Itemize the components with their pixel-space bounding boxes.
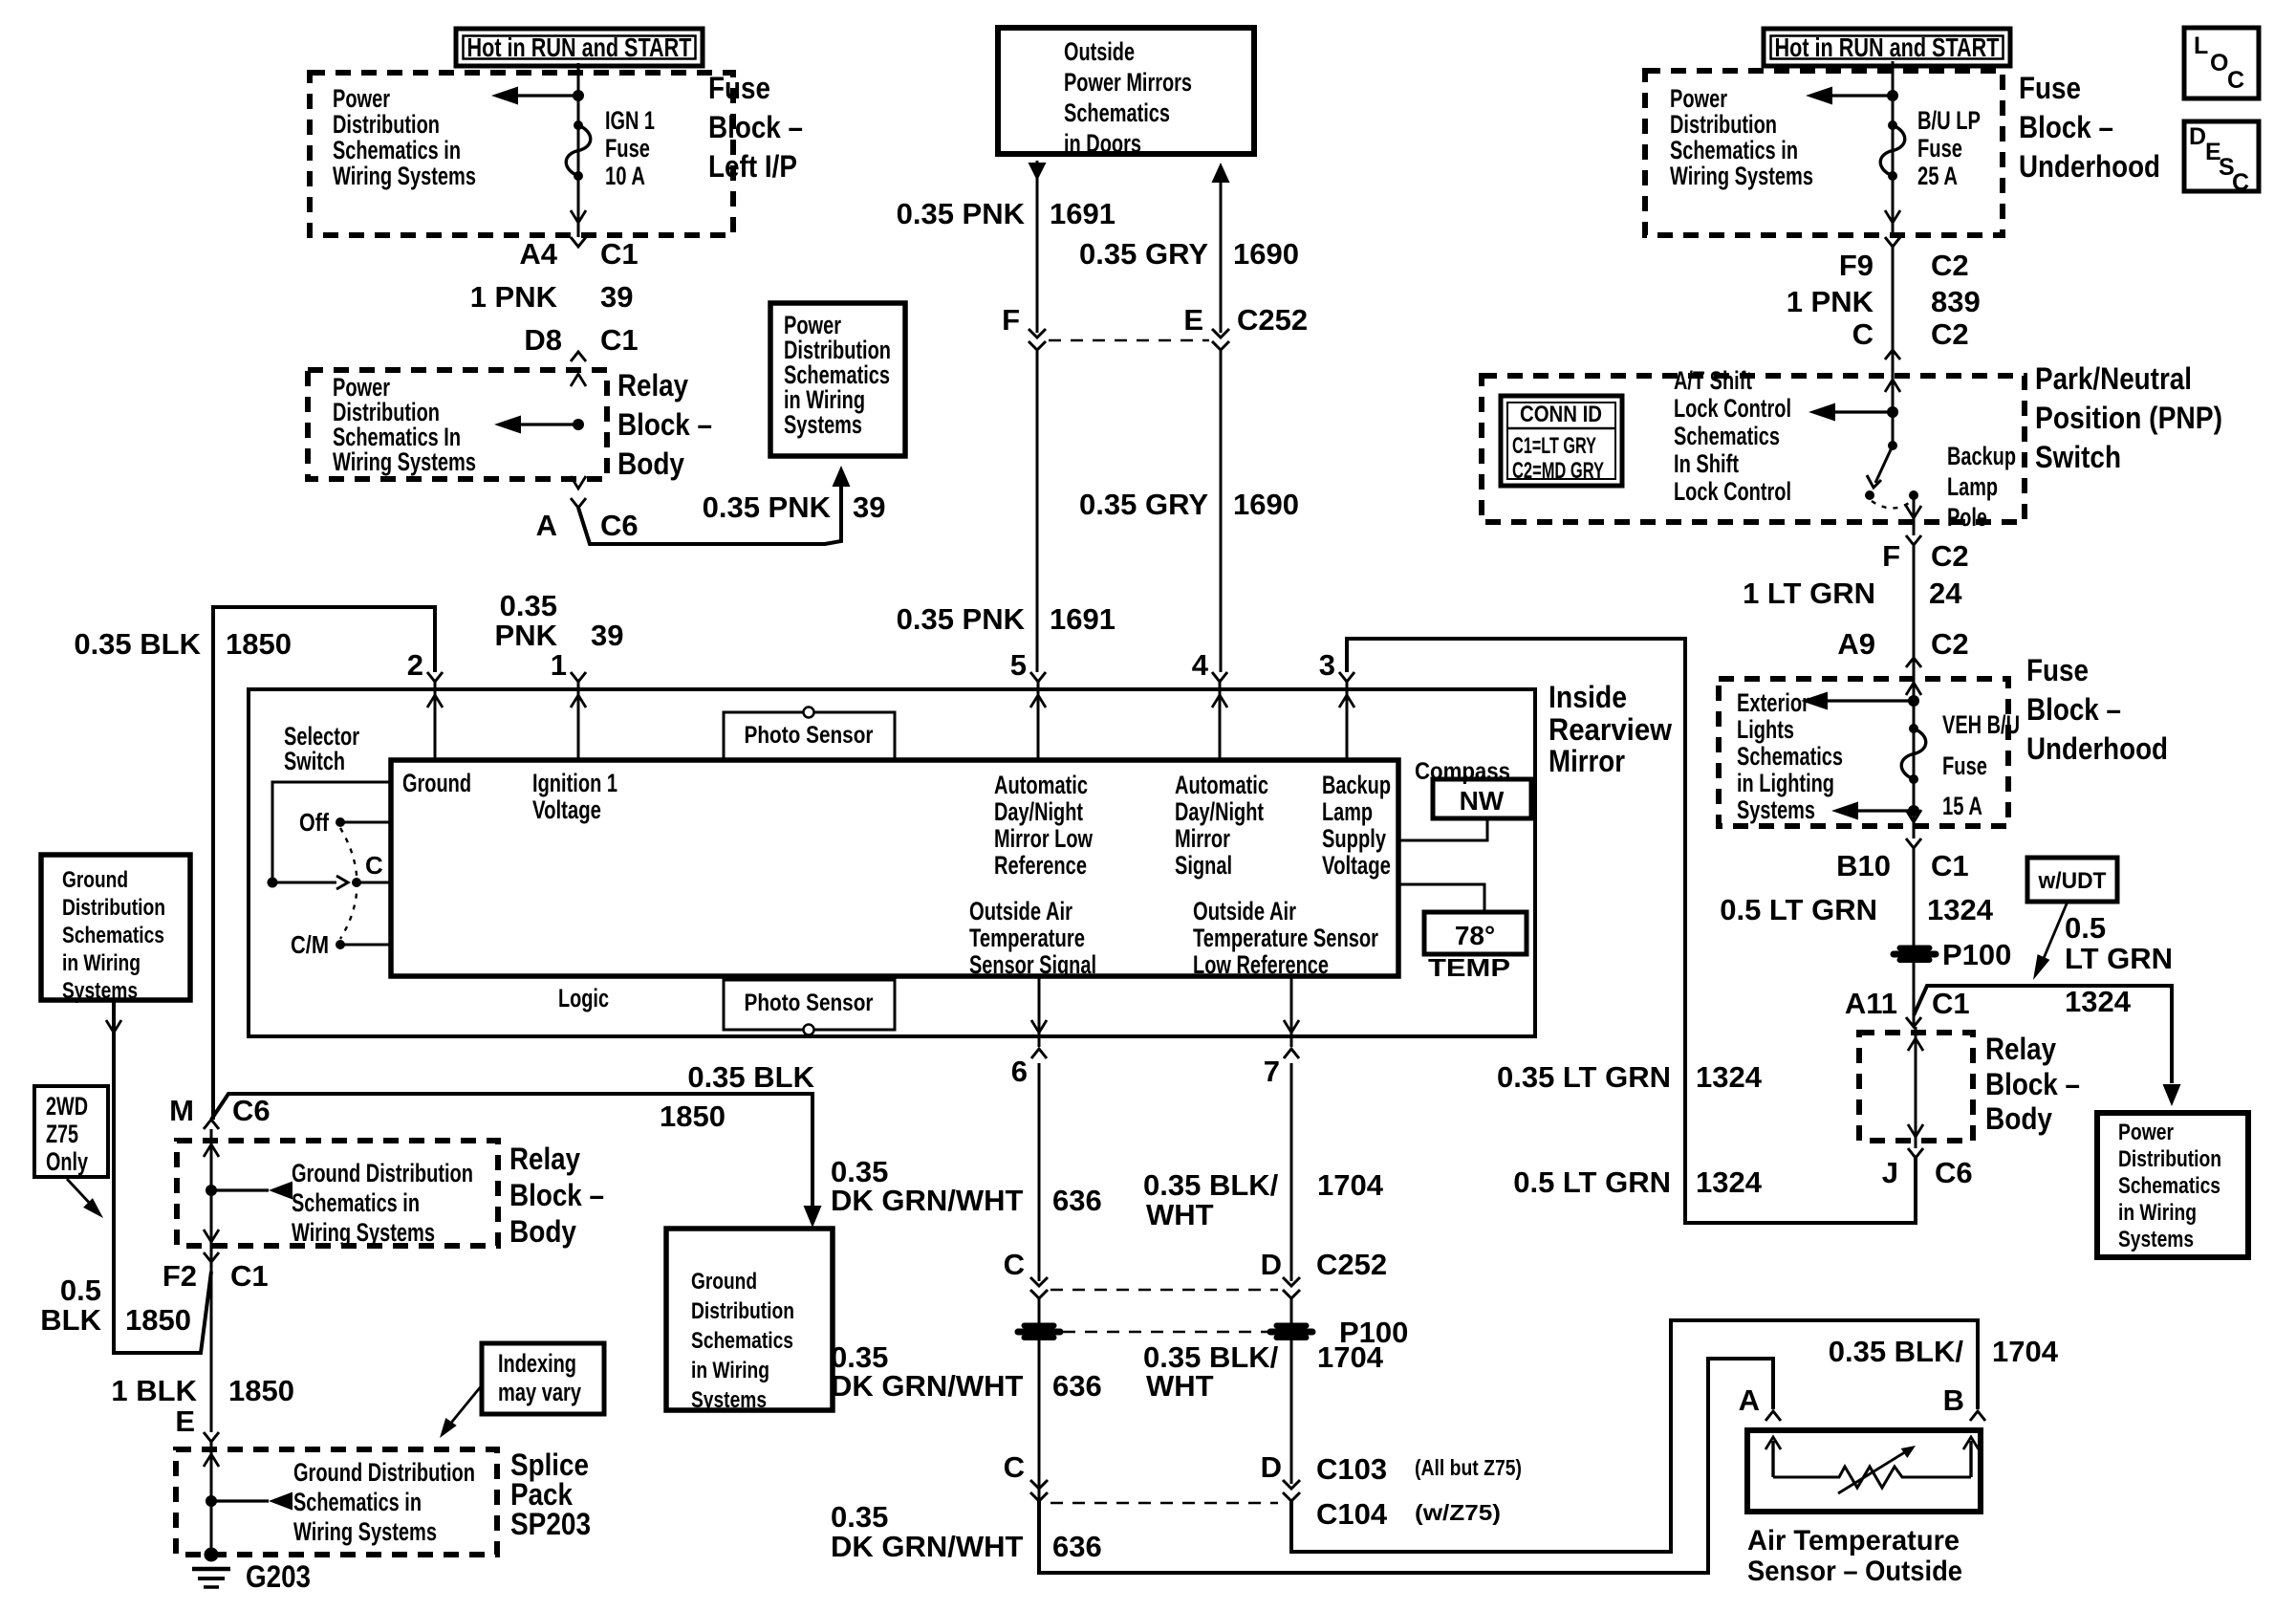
svg-text:Block –: Block –	[2019, 110, 2113, 144]
arrow at mirror pin 6	[1031, 1020, 1047, 1033]
wire 1850: mirror ground to splice pack and ground distribution	[211, 1094, 812, 1207]
svg-text:Signal: Signal	[1175, 851, 1232, 880]
svg-text:E: E	[175, 1404, 195, 1438]
svg-text:C: C	[2227, 67, 2244, 94]
svg-text:Sensor Signal: Sensor Signal	[969, 950, 1096, 979]
svg-text:C103: C103	[1316, 1452, 1387, 1486]
grommet P100 (wire 1324)	[1891, 946, 1939, 963]
svg-text:Park/Neutral: Park/Neutral	[2035, 361, 2192, 396]
svg-text:C/M: C/M	[291, 930, 329, 959]
connector C1 pin A4	[571, 237, 586, 247]
svg-text:C104: C104	[1316, 1497, 1388, 1531]
svg-text:Left I/P: Left I/P	[708, 149, 797, 184]
connector C1 pin F2	[204, 1252, 219, 1262]
grommet P100 (wire 636)	[1015, 1323, 1063, 1340]
fuse VEH B/U Fuse 15 A	[1909, 724, 1918, 733]
fuse block - underhood (VEH B/U) dashed box	[1719, 679, 2008, 826]
wire 0.35 PNK 1691 (pin5 to doors)	[1036, 161, 1039, 333]
arrow exiting relay block	[1908, 1124, 1923, 1137]
ref arrow: ground distribution (splice pack)	[206, 1495, 217, 1507]
node: Air Temperature Sensor - Outside box	[1747, 1430, 1981, 1512]
connector pin E (splice pack)	[204, 1432, 219, 1442]
svg-text:Z75: Z75	[46, 1120, 78, 1148]
wire into mirror pin 2	[434, 682, 437, 760]
svg-text:0.35 BLK: 0.35 BLK	[74, 627, 201, 661]
arrow entering relay block	[1908, 1038, 1923, 1051]
svg-text:Lamp: Lamp	[1322, 797, 1373, 826]
relay block - body dashed box (right)	[1859, 1033, 1973, 1141]
connector C1 pin A11	[1906, 1017, 1921, 1027]
svg-text:Power: Power	[2118, 1120, 2174, 1145]
svg-text:Day/Night: Day/Night	[1175, 797, 1264, 826]
svg-text:Lock Control: Lock Control	[1674, 477, 1791, 506]
svg-text:A/T Shift: A/T Shift	[1674, 366, 1752, 395]
wire to G203	[210, 1442, 213, 1555]
wire out of mirror pin 7	[1290, 976, 1293, 1047]
svg-text:4: 4	[1192, 648, 1209, 682]
node: Outside Power Mirrors Schematics in Doors box	[998, 28, 1254, 154]
wire: 0.35 BLK 1850 from mirror pin 2	[213, 607, 435, 1120]
svg-text:C: C	[365, 851, 383, 880]
svg-text:Underhood: Underhood	[2019, 149, 2160, 184]
node: Indexing may vary tag box	[482, 1343, 604, 1414]
svg-text:Lights: Lights	[1737, 715, 1794, 744]
svg-text:Off: Off	[299, 808, 329, 837]
svg-text:25 A: 25 A	[1917, 162, 1958, 190]
wire to compass display	[1398, 820, 1487, 840]
svg-text:Outside Air: Outside Air	[969, 897, 1072, 925]
svg-text:Only: Only	[46, 1147, 88, 1176]
connector: mirror pin 2	[427, 672, 443, 682]
svg-text:10 A: 10 A	[605, 162, 645, 190]
connector C1 pin B10	[1906, 838, 1921, 848]
arrow at mirror pin 4	[1212, 695, 1227, 708]
arrow entering relay block	[204, 1144, 219, 1157]
svg-text:0.35 GRY: 0.35 GRY	[1079, 237, 1208, 271]
svg-text:Fuse: Fuse	[708, 71, 770, 105]
svg-text:0.35 BLK/: 0.35 BLK/	[1143, 1168, 1279, 1202]
thermistor arrow head	[1901, 1446, 1916, 1458]
svg-text:Temperature Sensor: Temperature Sensor	[1193, 924, 1378, 952]
svg-text:39: 39	[853, 490, 885, 524]
svg-text:(w/Z75): (w/Z75)	[1415, 1500, 1501, 1525]
svg-text:2: 2	[407, 648, 423, 682]
arrow entering fuse block	[1906, 683, 1921, 695]
node: power distribution schematics box (right)	[2097, 1113, 2248, 1257]
node: Hot in RUN and START (right) label box	[1764, 29, 2010, 66]
svg-text:TEMP: TEMP	[1428, 953, 1510, 982]
svg-text:Backup: Backup	[1322, 771, 1391, 799]
svg-text:Block –: Block –	[2026, 692, 2121, 727]
svg-text:Body: Body	[1985, 1101, 2052, 1136]
svg-text:Systems: Systems	[2118, 1227, 2194, 1252]
wire 0.5 LT GRN 1324	[1913, 848, 1916, 1027]
svg-text:Ignition 1: Ignition 1	[532, 769, 617, 797]
svg-text:Mirror: Mirror	[1549, 744, 1625, 778]
connector C6 pin J	[1908, 1148, 1923, 1158]
connector C2 pin F	[1906, 535, 1921, 545]
svg-text:C: C	[1004, 1450, 1025, 1484]
node: LOC box	[2184, 28, 2259, 98]
connector: air temp sensor pin B	[1970, 1411, 1985, 1421]
ref arrow: power distribution takeoff	[1887, 90, 1898, 101]
svg-text:Lock Control: Lock Control	[1674, 394, 1791, 423]
svg-text:C252: C252	[1316, 1248, 1387, 1281]
svg-text:C: C	[2232, 169, 2249, 196]
svg-text:Low Reference: Low Reference	[1193, 950, 1329, 979]
svg-text:J: J	[1882, 1156, 1898, 1189]
connector: mirror pin 7	[1284, 1049, 1299, 1058]
svg-text:636: 636	[1052, 1530, 1102, 1563]
svg-text:O: O	[2210, 50, 2228, 76]
svg-text:Block –: Block –	[617, 407, 712, 442]
svg-text:Relay: Relay	[509, 1142, 580, 1176]
svg-text:C1: C1	[230, 1259, 269, 1293]
arrow at mirror pin 1	[571, 695, 586, 708]
svg-text:A: A	[536, 509, 557, 542]
connector C2 pin A9	[1906, 658, 1921, 667]
svg-text:839: 839	[1931, 285, 1981, 318]
node: power distribution schematics reference box	[770, 303, 905, 456]
node: Hot in RUN and START (left) label box	[456, 29, 703, 66]
ref arrow: ground distribution	[206, 1185, 217, 1196]
svg-text:C1=LT GRY: C1=LT GRY	[1512, 433, 1596, 459]
arrow entering splice pack	[204, 1454, 219, 1467]
svg-text:Ground Distribution: Ground Distribution	[292, 1159, 473, 1187]
svg-text:E: E	[1183, 303, 1203, 337]
connector C252 cavity C	[1030, 1277, 1048, 1298]
svg-text:Day/Night: Day/Night	[994, 797, 1083, 826]
node: w/UDT tag box	[2027, 858, 2117, 902]
wire through relay block	[210, 1129, 213, 1262]
svg-text:1324: 1324	[1927, 893, 1994, 926]
selector contact Off	[336, 817, 345, 827]
svg-text:Distribution: Distribution	[1670, 110, 1777, 139]
fuse IGN 1 Fuse 10 A	[574, 120, 583, 130]
connector C252 link (lower)	[1051, 1289, 1278, 1292]
grommet P100 link	[1063, 1331, 1268, 1334]
svg-text:Wiring Systems: Wiring Systems	[333, 447, 476, 476]
thermistor (variable resistor)	[1773, 1467, 1971, 1488]
wire out of mirror pin 6	[1038, 976, 1041, 1047]
arrow at mirror pin 7	[1284, 1020, 1299, 1033]
svg-text:C1: C1	[600, 323, 639, 357]
svg-text:Indexing: Indexing	[498, 1349, 576, 1378]
splice pack SP203 dashed box	[176, 1449, 497, 1555]
PNP contact (shift lock)	[1865, 490, 1874, 500]
node: Inside Rearview Mirror outer box	[249, 689, 1535, 1036]
ref arrow: power distribution takeoff	[573, 90, 584, 101]
svg-text:Wiring Systems: Wiring Systems	[1670, 162, 1813, 190]
svg-text:WHT: WHT	[1146, 1369, 1214, 1403]
svg-text:Fuse: Fuse	[2019, 71, 2081, 105]
ref arrow: exterior lights (lower)	[1908, 805, 1919, 816]
wire through VEH B/U fuse	[1913, 658, 1916, 838]
svg-text:Voltage: Voltage	[1322, 851, 1391, 880]
relay block - body dashed box (upper left)	[308, 370, 607, 479]
node: ground distribution schematics box (bottom middle)	[666, 1229, 833, 1410]
wire 1704 routing to air temperature sensor pin B	[1291, 1320, 1978, 1552]
svg-text:Fuse: Fuse	[1942, 751, 1987, 780]
indexing pointer head	[440, 1418, 457, 1438]
svg-text:Ground: Ground	[691, 1269, 757, 1295]
svg-text:C6: C6	[1935, 1156, 1973, 1189]
svg-text:1324: 1324	[2065, 985, 2132, 1018]
svg-text:5: 5	[1010, 648, 1027, 682]
svg-text:1690: 1690	[1233, 237, 1299, 271]
svg-text:C2: C2	[1931, 627, 1969, 661]
svg-text:Ground: Ground	[62, 867, 128, 893]
svg-text:1850: 1850	[660, 1099, 726, 1133]
svg-text:A4: A4	[519, 237, 557, 271]
svg-text:Distribution: Distribution	[691, 1298, 794, 1324]
svg-text:Schematics in: Schematics in	[292, 1188, 420, 1217]
svg-text:Hot in RUN and START: Hot in RUN and START	[1775, 33, 2000, 62]
selector switch common rail	[272, 782, 391, 882]
svg-text:DK GRN/WHT: DK GRN/WHT	[831, 1530, 1024, 1563]
svg-text:Underhood: Underhood	[2026, 731, 2168, 766]
svg-text:Rearview: Rearview	[1549, 712, 1672, 747]
wire 636 through P100	[1038, 1298, 1041, 1573]
fuse block - left I/P dashed box	[310, 73, 733, 235]
photo sensor (top)	[724, 712, 895, 760]
svg-text:w/UDT: w/UDT	[2038, 868, 2107, 894]
svg-text:IGN 1: IGN 1	[605, 106, 655, 135]
svg-text:NW: NW	[1460, 786, 1505, 816]
svg-text:may vary: may vary	[498, 1378, 581, 1406]
arrow: wire exits fuse block	[1885, 210, 1900, 223]
svg-text:CONN ID: CONN ID	[1520, 402, 1602, 427]
temp display 78deg	[1424, 912, 1527, 954]
svg-text:1691: 1691	[1050, 197, 1116, 230]
2WD pointer head	[83, 1198, 103, 1218]
svg-text:0.35 PNK: 0.35 PNK	[703, 490, 832, 524]
wire 636 routing to air temperature sensor pin A	[1039, 1359, 1773, 1573]
sensor pin A internal wire	[1771, 1441, 1774, 1477]
svg-text:VEH B/U: VEH B/U	[1942, 710, 2020, 739]
wire: backup lamp supply from PNP via relay block to pin 3	[1347, 639, 1916, 1223]
node: ground distribution schematics box (left)	[41, 855, 190, 1000]
svg-text:Schematics: Schematics	[1064, 98, 1170, 127]
arrow from ground distribution box	[106, 1020, 121, 1033]
svg-text:636: 636	[1052, 1369, 1102, 1403]
connector C252 link	[1049, 339, 1209, 342]
branch wire 0.5 LT GRN 1324 to power distribution	[1914, 986, 2172, 1083]
svg-text:Logic: Logic	[558, 984, 609, 1012]
svg-text:Photo Sensor: Photo Sensor	[745, 990, 874, 1016]
connector C1 pin D8	[571, 352, 586, 361]
svg-text:1 LT GRN: 1 LT GRN	[1743, 577, 1875, 610]
svg-text:Hot in RUN and START: Hot in RUN and START	[467, 33, 692, 62]
svg-text:B/U LP: B/U LP	[1917, 106, 1981, 135]
svg-text:F: F	[1002, 303, 1020, 337]
svg-text:C1: C1	[600, 237, 639, 271]
svg-text:Schematics: Schematics	[62, 923, 164, 948]
arrow: wire exits fuse block	[571, 210, 586, 223]
svg-text:BLK: BLK	[40, 1303, 101, 1337]
svg-text:Wiring Systems: Wiring Systems	[333, 162, 476, 190]
svg-text:B: B	[1943, 1383, 1964, 1417]
connector C6 pin A	[571, 498, 586, 508]
svg-text:F: F	[1882, 539, 1900, 573]
connector: mirror pin 3	[1339, 672, 1354, 682]
connector: mirror pin 6	[1031, 1049, 1047, 1058]
wire 1691 lower	[1036, 350, 1039, 672]
svg-text:Position (PNP): Position (PNP)	[2035, 401, 2222, 435]
svg-text:1704: 1704	[1317, 1168, 1384, 1202]
svg-text:Block –: Block –	[1985, 1067, 2080, 1101]
svg-text:Schematics: Schematics	[691, 1328, 793, 1354]
arrow exiting fuse block	[1906, 810, 1921, 822]
svg-text:1850: 1850	[226, 627, 292, 661]
node: DESC box	[2184, 121, 2259, 191]
wire through relay block	[1915, 1027, 1917, 1148]
svg-text:1850: 1850	[228, 1374, 294, 1407]
grommet P100 (wire 1704)	[1267, 1323, 1315, 1340]
svg-text:1850: 1850	[125, 1303, 191, 1337]
svg-text:0.5: 0.5	[2065, 911, 2106, 945]
PNP switch blade	[1888, 441, 1897, 450]
w/UDT pointer head	[2033, 954, 2049, 980]
svg-text:0.35 LT GRN: 0.35 LT GRN	[1497, 1060, 1671, 1094]
svg-text:in Lighting: in Lighting	[1737, 769, 1834, 797]
svg-text:L: L	[2194, 33, 2208, 59]
svg-text:A: A	[1739, 1383, 1760, 1417]
svg-text:1 PNK: 1 PNK	[1787, 285, 1874, 318]
svg-text:Mirror: Mirror	[1175, 824, 1230, 853]
wire into mirror pin 5	[1037, 682, 1040, 760]
fuse block - underhood dashed box	[1645, 71, 2003, 235]
svg-text:P100: P100	[1942, 938, 2011, 971]
arrow into ground distribution box	[804, 1206, 822, 1228]
arrow exiting PNP switch	[1906, 506, 1921, 518]
svg-text:0.35 BLK: 0.35 BLK	[687, 1060, 814, 1094]
svg-text:Temperature: Temperature	[969, 924, 1085, 952]
svg-text:1 BLK: 1 BLK	[111, 1374, 197, 1407]
svg-text:A9: A9	[1837, 627, 1875, 661]
svg-text:Photo Sensor: Photo Sensor	[745, 722, 874, 749]
svg-text:Voltage: Voltage	[532, 795, 601, 824]
svg-text:Block –: Block –	[708, 110, 803, 144]
svg-text:0.35 GRY: 0.35 GRY	[1079, 488, 1208, 521]
svg-text:M: M	[169, 1094, 194, 1127]
svg-text:Schematics in: Schematics in	[1670, 136, 1798, 164]
svg-text:3: 3	[1319, 648, 1335, 682]
connector: air temp sensor pin A	[1765, 1411, 1781, 1421]
svg-text:2WD: 2WD	[46, 1092, 88, 1121]
node: mirror logic box	[391, 760, 1398, 976]
svg-text:Distribution: Distribution	[2118, 1146, 2221, 1172]
svg-text:1691: 1691	[1050, 602, 1116, 636]
svg-text:SP203: SP203	[510, 1507, 591, 1541]
svg-text:0.35 PNK: 0.35 PNK	[897, 602, 1026, 636]
svg-text:7: 7	[1264, 1055, 1280, 1088]
svg-text:Ground: Ground	[402, 769, 471, 797]
svg-text:C6: C6	[232, 1094, 271, 1127]
svg-text:Backup: Backup	[1947, 442, 2016, 470]
svg-text:DK GRN/WHT: DK GRN/WHT	[831, 1369, 1024, 1403]
connector C2 pin C	[1885, 350, 1900, 359]
svg-text:0.5 LT GRN: 0.5 LT GRN	[1513, 1165, 1671, 1199]
svg-text:Wiring Systems: Wiring Systems	[293, 1517, 437, 1546]
svg-text:F9: F9	[1839, 249, 1874, 282]
svg-text:Distribution: Distribution	[333, 110, 440, 139]
svg-text:1324: 1324	[1696, 1060, 1763, 1094]
svg-text:0.35: 0.35	[831, 1500, 888, 1534]
svg-text:0.5 LT GRN: 0.5 LT GRN	[1720, 893, 1877, 926]
svg-text:15 A: 15 A	[1942, 792, 1982, 820]
svg-text:0.5: 0.5	[60, 1274, 101, 1307]
svg-text:1704: 1704	[1992, 1335, 2059, 1368]
connector C103/C104 link	[1051, 1502, 1278, 1505]
svg-text:LT GRN: LT GRN	[2065, 942, 2173, 975]
wire into mirror pin 4	[1219, 682, 1222, 760]
svg-text:Mirror Low: Mirror Low	[994, 824, 1094, 853]
svg-text:Outside: Outside	[1064, 37, 1135, 66]
svg-text:Systems: Systems	[1737, 795, 1815, 824]
svg-text:Lamp: Lamp	[1947, 472, 1998, 501]
ref arrow: A/T shift lock control	[1887, 406, 1898, 418]
svg-text:D8: D8	[524, 323, 562, 357]
arrow exiting relay block	[204, 1230, 219, 1242]
svg-text:Inside: Inside	[1549, 680, 1627, 714]
connector C252 cavity F	[1029, 329, 1046, 350]
svg-text:1 PNK: 1 PNK	[470, 280, 558, 314]
connector C252 cavity E	[1212, 329, 1229, 350]
svg-text:Automatic: Automatic	[1175, 771, 1268, 799]
svg-text:Fuse: Fuse	[1917, 134, 1962, 163]
svg-text:C2: C2	[1931, 249, 1969, 282]
svg-text:636: 636	[1052, 1184, 1102, 1217]
connector: mirror pin 1	[571, 672, 586, 682]
svg-text:in Doors: in Doors	[1064, 129, 1141, 158]
photo sensor (bottom)	[724, 980, 895, 1030]
arrow: wire enters relay block	[571, 374, 586, 386]
ground G203	[205, 1548, 219, 1562]
svg-text:D: D	[1261, 1248, 1282, 1281]
wire 1690 lower	[1220, 350, 1223, 672]
svg-text:in Wiring: in Wiring	[62, 950, 141, 976]
svg-text:Schematics: Schematics	[2118, 1173, 2220, 1199]
svg-text:Systems: Systems	[784, 410, 862, 439]
svg-text:C1: C1	[1932, 987, 1970, 1020]
connector: mirror pin 5	[1030, 672, 1046, 682]
svg-text:1690: 1690	[1233, 488, 1299, 521]
svg-text:C252: C252	[1237, 303, 1308, 337]
svg-text:D: D	[2189, 123, 2206, 150]
svg-text:Sensor – Outside: Sensor – Outside	[1747, 1556, 1962, 1587]
wire 0.5 BLK 1850	[114, 1000, 211, 1353]
svg-text:Body: Body	[509, 1214, 576, 1249]
sensor pin B internal wire	[1969, 1441, 1972, 1477]
svg-text:C2=MD GRY: C2=MD GRY	[1512, 458, 1604, 484]
svg-text:Exterior: Exterior	[1737, 688, 1809, 717]
arrow: wire exits relay block	[571, 476, 586, 489]
svg-text:Fuse: Fuse	[2026, 653, 2089, 687]
wire 839	[1892, 247, 1895, 376]
node: Park/Neutral Position (PNP) Switch dashed box	[1482, 376, 2025, 522]
svg-text:Reference: Reference	[994, 851, 1087, 880]
svg-text:G203: G203	[246, 1559, 311, 1594]
connector C6 pin M	[204, 1120, 219, 1129]
svg-text:1: 1	[551, 648, 567, 682]
svg-text:Power: Power	[333, 84, 390, 113]
connector C103/C104 cavity D	[1283, 1480, 1300, 1501]
svg-text:6: 6	[1011, 1055, 1028, 1088]
thermistor arrow shaft	[1838, 1450, 1908, 1493]
svg-text:Wiring Systems: Wiring Systems	[292, 1218, 435, 1247]
svg-text:24: 24	[1929, 577, 1962, 610]
